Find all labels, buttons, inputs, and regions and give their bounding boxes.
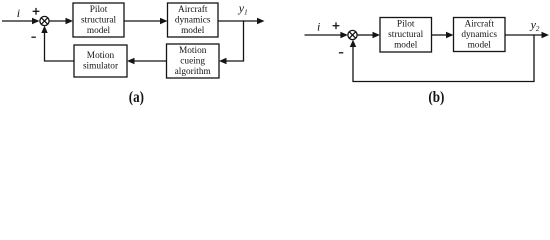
svg-text:Motion: Motion: [179, 46, 207, 56]
svg-text:y2: y2: [530, 17, 540, 33]
wire tap to motion cueing block (a): [226, 60, 244, 62]
svg-text:i: i: [317, 20, 320, 34]
block Motion simulator (a): [74, 45, 127, 77]
svg-text:(b): (b): [428, 88, 444, 106]
svg-text:y1: y1: [238, 1, 248, 17]
output wire (b): [505, 34, 543, 36]
plus sign (b): [333, 22, 340, 29]
wire summing junction to pilot block (a): [49, 20, 66, 22]
block Aircraft dynamics model (a): [168, 3, 219, 37]
svg-text:Aircraft: Aircraft: [464, 19, 494, 30]
wire pilot block to aircraft block (a): [124, 20, 161, 22]
arrowhead into pilot block (a): [66, 18, 74, 24]
svg-text:(a): (a): [129, 88, 144, 106]
feedback wire simulator to summing junction (a): [45, 32, 75, 61]
feedback arrowhead into summing junction (a): [41, 26, 47, 33]
block Aircraft dynamics model (b): [454, 18, 506, 52]
plus sign (a): [33, 8, 40, 15]
output arrowhead (b): [542, 32, 550, 38]
block Pilot structural model (b): [380, 18, 432, 53]
wire pilot block to aircraft block (b): [432, 34, 447, 36]
svg-text:i: i: [17, 6, 20, 20]
arrowhead into motion simulator (a): [127, 58, 135, 64]
summing junction S1 (a): [40, 16, 49, 25]
svg-text:simulator: simulator: [83, 62, 119, 72]
minus sign (a): [31, 36, 35, 38]
arrowhead into summing junction (b): [340, 32, 348, 38]
wire motion cueing to motion simulator (a): [134, 60, 167, 62]
svg-text:structural: structural: [81, 16, 117, 26]
svg-text:model: model: [87, 26, 111, 36]
wire input to summing junction (b): [305, 34, 343, 36]
svg-text:Motion: Motion: [87, 51, 115, 61]
minus sign (b): [339, 52, 343, 54]
arrowhead into pilot block (b): [373, 32, 381, 38]
svg-text:model: model: [181, 26, 205, 36]
svg-text:model: model: [468, 41, 492, 51]
node tap wire down from output (a): [243, 20, 245, 61]
output arrowhead (a): [257, 18, 265, 24]
svg-text:structural: structural: [388, 30, 424, 40]
arrowhead into summing junction (a): [32, 18, 40, 24]
svg-text:algorithm: algorithm: [175, 67, 212, 77]
feedback bottom wire (b): [353, 46, 535, 82]
node tap wire down from output (b): [533, 34, 535, 81]
feedback arrowhead into summing junction (b): [350, 40, 356, 47]
svg-text:dynamics: dynamics: [461, 30, 497, 40]
wire summing junction to pilot block (b): [357, 34, 373, 36]
summing junction S2 (b): [348, 30, 357, 39]
block Pilot structural model (a): [73, 3, 124, 37]
svg-text:Pilot: Pilot: [397, 20, 415, 30]
arrowhead into aircraft block (b): [446, 32, 454, 38]
svg-text:dynamics: dynamics: [175, 16, 211, 26]
svg-text:model: model: [394, 41, 418, 51]
wire input to summing junction (a): [2, 20, 34, 22]
block Motion cueing algorithm (a): [167, 44, 220, 78]
arrowhead into aircraft block (a): [160, 18, 168, 24]
svg-text:Pilot: Pilot: [90, 5, 108, 15]
arrowhead into motion cueing block (a): [219, 58, 227, 64]
svg-text:Aircraft: Aircraft: [178, 4, 208, 15]
output wire (a): [218, 20, 258, 22]
svg-text:cueing: cueing: [180, 57, 205, 67]
